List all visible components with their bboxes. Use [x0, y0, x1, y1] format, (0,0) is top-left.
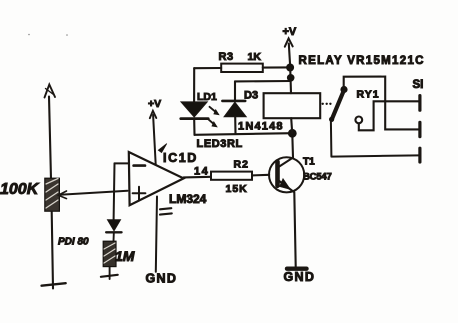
ground tick bottom-left	[42, 283, 66, 286]
label BC547	[303, 171, 332, 182]
resistor 1M (hatched body)	[103, 241, 116, 279]
svg-text:LM324: LM324	[169, 192, 207, 206]
svg-text:15K: 15K	[226, 183, 248, 195]
ground GND (transistor)	[284, 269, 316, 284]
resistor R3	[194, 64, 287, 72]
svg-text:GND: GND	[146, 272, 178, 286]
svg-text:1M: 1M	[115, 248, 135, 264]
svg-text:+V: +V	[283, 26, 297, 38]
ground tick below 1M	[101, 275, 118, 277]
label 15K	[226, 183, 248, 195]
diode D3	[222, 81, 246, 133]
svg-text:PDI 80: PDI 80	[58, 237, 89, 248]
photodiode PD1	[106, 220, 121, 241]
relay contact RY1: pivot node	[340, 86, 347, 93]
label R3	[219, 51, 234, 63]
label RY1	[357, 89, 380, 101]
terminal 1	[418, 96, 421, 111]
speck noise top-left	[28, 34, 68, 36]
ground GND (op-amp)	[146, 272, 178, 286]
relay coil box	[264, 93, 321, 133]
label 1M	[115, 248, 135, 264]
label PDI 80	[58, 237, 89, 248]
dotted actuation link	[322, 103, 332, 105]
wire: left sense line vertical	[49, 97, 53, 289]
potentiometer 100K (hatched body)	[45, 178, 60, 211]
svg-text:LD1: LD1	[197, 91, 217, 103]
LED LD1	[181, 102, 208, 135]
terminal 3	[418, 148, 421, 162]
svg-text:1N4148: 1N4148	[238, 120, 284, 132]
resistor R2	[211, 172, 269, 180]
relay NC contact circle	[355, 117, 362, 124]
label R2	[234, 158, 249, 170]
node: junction R3/+V	[286, 64, 294, 72]
svg-text:RELAY VR15M121C: RELAY VR15M121C	[299, 55, 425, 67]
terminal 2	[418, 122, 421, 136]
+V supply for op-amp	[148, 98, 161, 165]
pin 11 dashes	[160, 208, 172, 214]
op-amp U1 IC1D triangle	[129, 152, 184, 205]
wire: op-amp output to R2	[184, 176, 211, 179]
transistor T1 circle	[269, 157, 304, 192]
pin 14 label	[194, 166, 209, 178]
label D3	[244, 90, 258, 102]
label RELAY VR15M121C	[299, 55, 425, 67]
svg-text:GND: GND	[284, 270, 316, 284]
wire: D3 top to +V rail	[235, 80, 291, 83]
label LM324	[169, 192, 207, 206]
wire: bottom rail LED/D3 to collector	[195, 133, 293, 135]
svg-text:RY1: RY1	[357, 89, 380, 101]
label LD1	[197, 91, 217, 103]
wire: LED branch vertical	[193, 68, 195, 102]
label IC1D	[163, 151, 198, 165]
svg-text:SI: SI	[413, 79, 424, 91]
svg-text:IC1D: IC1D	[163, 151, 198, 165]
label 1K	[248, 51, 262, 63]
label 100K	[0, 181, 40, 198]
svg-text:LED3RL: LED3RL	[197, 138, 243, 150]
wire: inverting-input branch vertical	[114, 163, 128, 219]
pin-4 arrow mark	[158, 144, 167, 153]
label T1	[303, 156, 315, 167]
svg-text:D3: D3	[244, 90, 258, 102]
node: arrow at top of left line	[45, 85, 56, 98]
wire: +V rail down	[289, 68, 292, 94]
label S1	[413, 79, 424, 91]
svg-text:R2: R2	[234, 158, 249, 170]
svg-text:R3: R3	[219, 51, 234, 63]
wire: contact to terminal 1	[359, 101, 419, 130]
wire: op-amp ground line	[156, 197, 157, 272]
svg-text:BC547: BC547	[303, 171, 332, 182]
node: junction D3/+V	[287, 74, 295, 82]
wire: pivot to terminal 2	[344, 77, 419, 130]
wire: wiper arm to op-amp + input	[58, 191, 127, 199]
relay switch arm	[329, 92, 343, 156]
svg-text:1K: 1K	[248, 51, 262, 63]
transistor collector stroke	[279, 134, 294, 167]
svg-text:+V: +V	[148, 98, 161, 110]
wire: arm bottom to terminal 3	[331, 155, 418, 156]
LED emission arrows	[208, 107, 219, 127]
svg-text:100K: 100K	[0, 181, 40, 198]
svg-text:T1: T1	[303, 156, 315, 167]
+V supply (relay)	[283, 26, 297, 67]
label LED3RL	[197, 138, 243, 150]
svg-text:14: 14	[194, 166, 209, 178]
transistor emitter stroke with arrow	[279, 179, 296, 267]
node: junction collector	[288, 129, 297, 138]
label 1N4148	[238, 120, 284, 132]
